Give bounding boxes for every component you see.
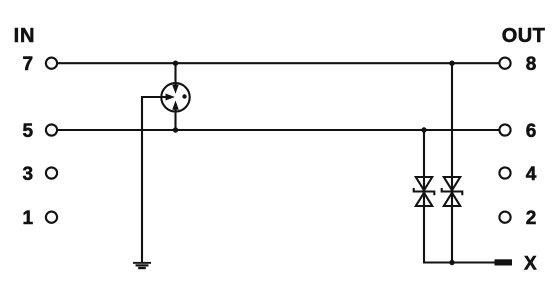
- svg-text:1: 1: [23, 208, 34, 229]
- node junction at GDT top on line 7-8: [173, 61, 178, 66]
- svg-text:4: 4: [526, 164, 537, 185]
- terminal 3: [46, 167, 57, 178]
- svg-text:8: 8: [526, 54, 537, 75]
- terminal 7: [46, 58, 57, 69]
- gas discharge tube (3-electrode surge arrester): [161, 83, 189, 111]
- wire GDT top lead: [174, 63, 176, 86]
- wire vertical from line 5-6 down to X bus: [423, 130, 425, 263]
- svg-text:5: 5: [23, 121, 34, 142]
- terminal X block: [495, 259, 513, 265]
- wire X bus horizontal: [423, 261, 495, 263]
- svg-text:2: 2: [526, 208, 537, 229]
- terminal 4: [499, 167, 510, 178]
- suppressor diode (bidirectional TVS) right: [442, 177, 463, 206]
- node junction at GDT bottom on line 5-6: [173, 127, 178, 132]
- wire GDT ground branch vertical: [141, 96, 143, 262]
- wire vertical from line 7-8 down to X bus: [451, 63, 453, 262]
- terminal 5: [46, 124, 57, 135]
- svg-text:6: 6: [526, 121, 537, 142]
- terminal 8: [499, 58, 510, 69]
- suppressor diode (bidirectional TVS) left: [414, 177, 435, 206]
- svg-text:IN: IN: [14, 25, 36, 47]
- terminal 2: [499, 212, 510, 223]
- node junction on line 5-6 at right branch: [421, 127, 426, 132]
- wire line 7 to 8: [58, 62, 499, 64]
- svg-text:X: X: [524, 254, 537, 275]
- svg-text:3: 3: [23, 164, 34, 185]
- svg-text:OUT: OUT: [502, 25, 545, 47]
- wire GDT ground branch horizontal: [142, 96, 166, 98]
- terminal 6: [499, 124, 510, 135]
- wire line 5 to 6: [58, 129, 499, 131]
- wire GDT bottom lead: [174, 109, 176, 131]
- node junction on line 7-8 at right branch: [449, 61, 454, 66]
- ground: [133, 262, 151, 269]
- terminal 1: [46, 212, 57, 223]
- svg-text:7: 7: [23, 54, 34, 75]
- node junction on X bus: [449, 260, 454, 265]
